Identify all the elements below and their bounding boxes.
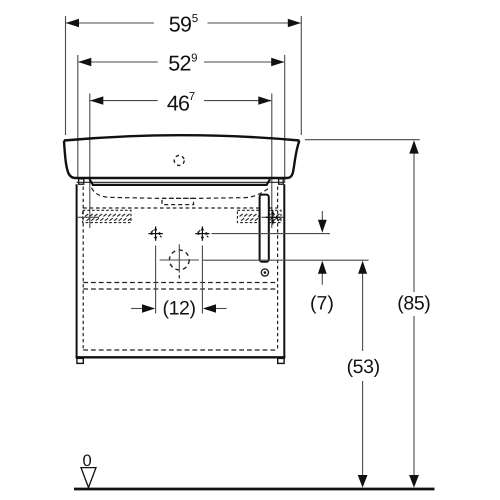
- mounting hole crosshair left: [148, 226, 162, 240]
- dimension 59.5 extension line left: [65, 16, 67, 135]
- dimension (85) line: [413, 152, 415, 292]
- cabinet carcass top edge: [77, 181, 285, 183]
- dimension 59.5 extension line right: [300, 16, 302, 135]
- drawer front top edge with chamfers: [90, 179, 270, 185]
- left foot: [77, 358, 83, 363]
- tap hole dashed circle: [174, 156, 184, 166]
- hole spacing vertical line left: [155, 246, 157, 314]
- cabinet outer box: [76, 184, 78, 357]
- right foot: [278, 358, 284, 363]
- svg-text:52: 52: [168, 52, 190, 76]
- hole spacing vertical line right: [201, 246, 203, 314]
- dimension (85) lower arrow: [409, 475, 419, 488]
- svg-text:5: 5: [192, 13, 198, 25]
- dimension 59.5 arrow right: [288, 19, 301, 27]
- inner dashed right wall: [277, 187, 279, 351]
- reference line (85) top: [305, 139, 420, 141]
- right drain crosshair line: [262, 216, 284, 218]
- left bracket hatch: [85, 214, 131, 221]
- left joint bracket: [79, 179, 84, 184]
- dimension 59.5 arrow left: [66, 19, 79, 27]
- washbasin outline: [64, 135, 299, 140]
- dimension 46.7 arrow left: [90, 96, 103, 104]
- svg-text:59: 59: [169, 13, 191, 37]
- drain hole dashed circle: [169, 250, 189, 270]
- mounting hole crosshair right: [195, 226, 209, 240]
- floor line: [74, 488, 435, 491]
- dimension (53) line: [362, 272, 364, 351]
- dimension 52.9 arrow right: [271, 58, 284, 66]
- dimension (85) upper arrow: [409, 140, 418, 153]
- inner dashed left wall: [82, 187, 84, 351]
- svg-text:9: 9: [191, 53, 197, 65]
- right drain crosshair mark: [266, 210, 280, 224]
- dimension 46.7 line: [90, 100, 157, 102]
- dimension (12) arrow right: [212, 308, 227, 310]
- dimension (53) upper arrow: [358, 261, 367, 274]
- mounting rail dashed line: [83, 207, 277, 209]
- drain hole cross vertical: [178, 244, 180, 272]
- screw: [261, 269, 268, 276]
- dimension (12) arrow left: [131, 308, 146, 310]
- dimension 52.9 line: [78, 61, 157, 63]
- svg-text:(12): (12): [163, 298, 196, 320]
- siphon cover bar: [260, 195, 269, 262]
- right bracket hatch: [240, 214, 282, 221]
- inner dashed bottom: [83, 349, 277, 351]
- svg-text:46: 46: [167, 92, 190, 116]
- drawer divider dashed line 1: [83, 282, 277, 284]
- svg-text:(53): (53): [347, 356, 380, 378]
- dimension (7) upper arrow: [321, 211, 323, 222]
- left fixing cross line: [77, 216, 99, 218]
- reference line from crosshair to (7) top: [212, 233, 331, 235]
- drawer divider dashed line 2: [83, 288, 277, 290]
- datum triangle: [81, 468, 96, 488]
- reference line at drain height to (53): [203, 259, 369, 261]
- dimension 52.9 arrow left: [78, 58, 91, 66]
- dimension (53) lower arrow: [358, 475, 368, 488]
- svg-text:7: 7: [189, 91, 195, 103]
- right bracket dashed rect: [237, 210, 281, 222]
- dimension 46.7 arrow right: [258, 96, 271, 104]
- dimension (7) lower arrow: [321, 272, 323, 285]
- dimension 46.7 extension line left: [89, 94, 91, 229]
- svg-text:(7): (7): [310, 293, 334, 315]
- hidden drain fitting rect: [162, 198, 194, 204]
- dimension 52.9 extension line right: [284, 55, 286, 183]
- drain hole cross horizontal: [160, 259, 199, 261]
- drain pipe dash below: [178, 275, 180, 281]
- left bracket dashed rect: [83, 210, 131, 222]
- hidden bowl curve: [92, 188, 270, 199]
- dimension 59.5 line: [66, 22, 154, 24]
- dimension 52.9 extension line left: [77, 55, 79, 178]
- svg-text:(85): (85): [397, 293, 430, 315]
- dimension 46.7 extension line right: [271, 94, 273, 229]
- right joint bracket: [279, 179, 284, 184]
